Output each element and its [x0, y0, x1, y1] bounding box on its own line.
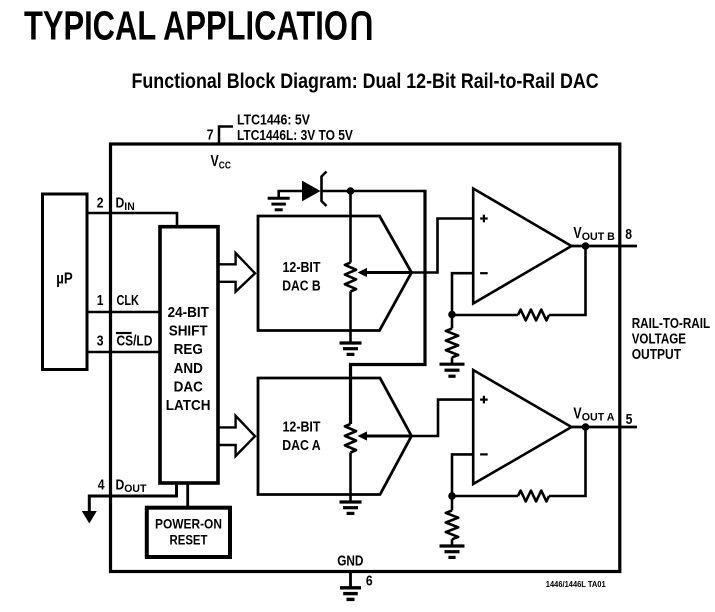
svg-text:IN: IN: [124, 201, 135, 213]
svg-text:24-BIT: 24-BIT: [168, 304, 209, 321]
svg-text:7: 7: [207, 126, 214, 143]
svg-text:CC: CC: [219, 160, 231, 172]
wire op-amp A minus input to feedback node: [452, 454, 473, 496]
label LTC1446: 5V: [237, 112, 310, 128]
wire CS/LD from µP to shift register: [87, 351, 161, 354]
microprocessor label µP: [56, 271, 73, 288]
svg-text:RESET: RESET: [170, 531, 208, 547]
wire op-amp B minus input to feedback node: [452, 273, 473, 314]
title stylized N glyph: [354, 13, 369, 40]
svg-text:LTC1446L: 3V TO 5V: LTC1446L: 3V TO 5V: [237, 127, 353, 143]
svg-text:RAIL-TO-RAIL: RAIL-TO-RAIL: [632, 315, 710, 332]
svg-text:AND: AND: [174, 360, 203, 377]
net label GND: [337, 553, 363, 569]
svg-text:DAC: DAC: [174, 379, 203, 396]
svg-text:REG: REG: [174, 342, 203, 359]
svg-text:3: 3: [97, 332, 104, 349]
signal label DIN: [116, 194, 135, 213]
ground (DAC A ladder): [340, 502, 362, 513]
svg-text:LTC1446: 5V: LTC1446: 5V: [237, 112, 310, 128]
ground (op-amp A gain resistor): [440, 546, 465, 557]
pin number 4: [98, 476, 105, 493]
svg-text:8: 8: [625, 226, 632, 243]
annotation OUTPUT: [632, 346, 682, 362]
power-on reset block: [147, 508, 230, 557]
pin number 2: [97, 194, 104, 211]
svg-text:SHIFT: SHIFT: [169, 323, 208, 340]
DAC A resistor ladder (potentiometer): [345, 424, 356, 501]
resistor op-amp A feedback node to ground: [446, 511, 458, 540]
svg-text:POWER-ON: POWER-ON: [155, 516, 222, 532]
wire CLK from µP to shift register: [87, 311, 161, 314]
svg-text:GND: GND: [337, 553, 363, 569]
wire op-amp B output VOUT B pin 8: [571, 245, 637, 248]
svg-text:1446/1446L TA01: 1446/1446L TA01: [546, 580, 607, 589]
ground (zener anode): [268, 198, 290, 210]
op-amp B minus input marker: [480, 272, 488, 274]
svg-text:CLK: CLK: [117, 291, 140, 308]
microprocessor block: [43, 194, 88, 370]
net label VOUT A: [573, 404, 614, 423]
op-amp A minus input marker: [480, 453, 488, 455]
DAC A wiper arrow: [358, 431, 412, 440]
net label VOUT B: [573, 224, 615, 243]
12-bit DAC B block: [258, 216, 412, 331]
junction dot op-amp A feedback node: [448, 492, 456, 500]
svg-text:TYPICAL APPLICATIO: TYPICAL APPLICATIO: [24, 2, 348, 48]
svg-text:6: 6: [366, 572, 373, 589]
24-bit shift register and DAC latch block: [160, 227, 218, 483]
net VCC label: [211, 152, 232, 172]
wire DIN from µP into shift register: [87, 213, 177, 227]
svg-text:OUT A: OUT A: [582, 411, 615, 423]
svg-text:V: V: [211, 152, 220, 170]
title TYPICAL APPLICATION: [24, 2, 348, 48]
svg-text:1: 1: [97, 292, 104, 309]
figure tag 1446/1446L TA01: [546, 580, 607, 589]
annotation VOLTAGE: [632, 330, 686, 347]
ground (GND pin 6): [340, 588, 361, 600]
signal label CLK: [117, 291, 140, 308]
ground (DAC B ladder): [340, 343, 362, 354]
svg-text:OUTPUT: OUTPUT: [632, 346, 682, 362]
bus arrow shift register to DAC A: [219, 416, 255, 456]
resistor op-amp B feedback node to ground: [446, 329, 458, 358]
label LTC1446L: 3V TO 5V: [237, 127, 353, 143]
ground (op-amp B gain resistor): [440, 364, 465, 376]
DAC B wiper arrow: [358, 268, 412, 277]
wire DAC B wiper to op-amp B plus input: [412, 219, 474, 273]
DOUT arrowhead: [82, 511, 97, 524]
annotation RAIL-TO-RAIL: [632, 315, 710, 332]
12-bit DAC A block: [258, 378, 412, 495]
signal label CS/LD: [117, 332, 153, 349]
svg-text:Functional Block Diagram: Dual: Functional Block Diagram: Dual 12-Bit Ra…: [132, 69, 599, 93]
pin number 7: [207, 126, 214, 143]
feedback resistor op-amp A: [452, 427, 586, 501]
pin number 6: [366, 572, 373, 589]
svg-text:12-BIT: 12-BIT: [283, 418, 321, 434]
junction dot op-amp B feedback node: [448, 311, 456, 319]
overline on CS: [116, 332, 132, 334]
svg-text:OUT B: OUT B: [582, 231, 615, 243]
pin number 1: [97, 292, 104, 309]
junction dot op-amp A output: [582, 423, 590, 431]
op-amp B plus input marker: [480, 215, 488, 223]
svg-text:D: D: [116, 194, 125, 211]
svg-text:4: 4: [98, 476, 105, 493]
wire DOUT from shift register out of box: [89, 483, 176, 512]
op-amp A plus input marker: [480, 396, 488, 404]
subtitle: [132, 69, 599, 93]
junction dot op-amp B output: [582, 242, 590, 250]
op-amp A: [473, 370, 571, 484]
pin number 8: [625, 226, 632, 243]
svg-text:CS/LD: CS/LD: [117, 332, 153, 349]
bus arrow shift register to DAC B: [219, 253, 255, 292]
svg-text:5: 5: [626, 411, 633, 428]
svg-text:LATCH: LATCH: [166, 397, 211, 414]
svg-text:12-BIT: 12-BIT: [283, 259, 321, 275]
wire op-amp A output VOUT A pin 5: [571, 426, 637, 429]
DAC B resistor ladder (potentiometer): [345, 191, 356, 342]
feedback resistor op-amp B: [452, 246, 586, 320]
pin number 5: [626, 411, 633, 428]
IC boundary box: [111, 144, 620, 572]
wire zener anode to ground: [279, 191, 303, 198]
pin 7 VCC stub: [219, 127, 233, 145]
wire GND pin stub: [349, 571, 352, 588]
svg-text:VOLTAGE: VOLTAGE: [632, 330, 686, 347]
wire shift register to power-on reset: [186, 483, 189, 507]
svg-text:DAC B: DAC B: [282, 277, 321, 293]
svg-text:µP: µP: [56, 271, 73, 288]
svg-text:2: 2: [97, 194, 104, 211]
wire zener cathode to VCC rail / reference rail: [322, 190, 426, 193]
svg-text:DAC A: DAC A: [282, 437, 321, 453]
pin number 3: [97, 332, 104, 349]
svg-text:OUT: OUT: [124, 483, 146, 495]
signal label DOUT: [116, 476, 147, 495]
svg-text:D: D: [116, 476, 125, 493]
wire DAC A wiper to op-amp A plus input: [412, 400, 474, 436]
junction dot reference node: [347, 187, 355, 195]
op-amp B: [473, 189, 571, 304]
wire reference rail down and across to DAC A wiper: [351, 190, 426, 424]
zener diode D1: [303, 172, 327, 207]
